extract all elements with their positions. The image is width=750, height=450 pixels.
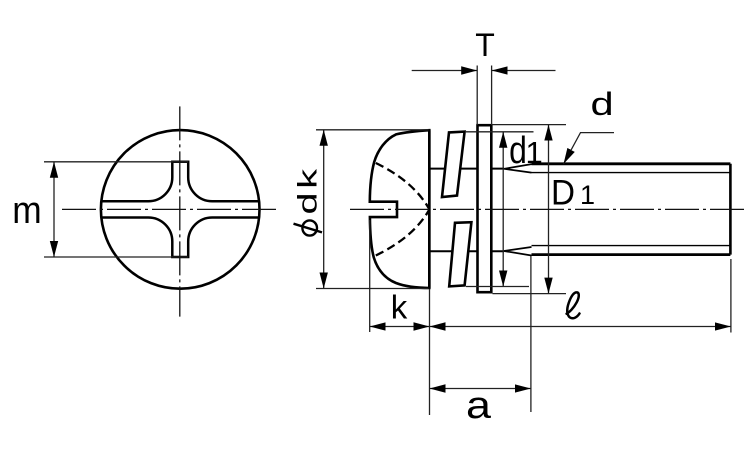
thread run-out wedge bottom: [504, 247, 532, 256]
D1 label: [551, 174, 575, 213]
svg-text:1: 1: [526, 135, 543, 170]
d1 dimension line with arrows: [502, 132, 504, 287]
a label: [466, 383, 492, 426]
svg-text:dk: dk: [293, 165, 323, 214]
main axis centerline of side view: [350, 208, 744, 210]
horizontal centerline of head circle: [62, 208, 276, 210]
svg-text:1: 1: [580, 180, 595, 210]
shank bottom edge under washers: [429, 250, 504, 252]
a right extension line: [530, 256, 532, 412]
T dimension line right part with arrow: [492, 70, 556, 72]
svg-text:k: k: [391, 289, 408, 326]
svg-text:D: D: [551, 174, 575, 213]
m top extension line: [44, 161, 188, 163]
thread root bottom line: [532, 245, 730, 247]
thread major diameter bottom line: [532, 253, 731, 256]
m label: [12, 189, 41, 231]
k/l shared extension line: [429, 289, 431, 415]
thread root top line: [532, 172, 730, 174]
thread end face: [729, 164, 732, 255]
k dimension line with arrows: [370, 326, 430, 328]
vertical centerline of head circle: [179, 106, 181, 316]
shank top edge under washers: [429, 168, 504, 170]
d1 bottom extension line: [466, 286, 529, 288]
m dimension line with arrows: [53, 162, 55, 257]
d1 top extension line: [465, 131, 534, 133]
svg-text:d: d: [590, 86, 613, 122]
l (script ell) label: [567, 292, 580, 318]
T dimension line left part with arrow: [412, 70, 478, 72]
svg-text:m: m: [12, 189, 41, 231]
phi-dk dimension line with arrows: [323, 130, 325, 289]
phi symbol of phi-dk label (drawn): [294, 220, 323, 235]
hidden recess line lower (dashed): [376, 211, 429, 256]
k left extension line: [369, 220, 371, 332]
head bearing face: [428, 130, 431, 288]
a dimension line with arrows: [430, 388, 531, 390]
spring washer lower section: [449, 222, 471, 286]
flat washer (side view): [478, 125, 492, 292]
thread major diameter top line: [532, 162, 731, 165]
d label: [590, 86, 613, 122]
svg-text:T: T: [475, 27, 495, 63]
l right extension line: [730, 259, 732, 333]
T right extension line: [491, 66, 493, 126]
spring washer upper section: [442, 132, 465, 197]
phi-dk top extension line: [316, 129, 429, 131]
d leader line with arrow: [564, 133, 615, 164]
D1 bottom extension line: [493, 293, 567, 295]
pan head outline (side view): [370, 130, 430, 288]
cross recess outline (top view): [101, 162, 260, 257]
svg-text:a: a: [466, 383, 492, 426]
hidden recess line upper (dashed): [376, 163, 429, 208]
D1 dimension line with arrows: [548, 125, 550, 294]
thread run-out wedge top: [504, 164, 532, 173]
l dimension line with arrows: [430, 326, 731, 328]
D1 top extension line: [492, 124, 566, 126]
T left extension line: [476, 66, 478, 126]
phi-dk bottom extension line: [316, 288, 429, 290]
svg-text:d: d: [509, 129, 527, 171]
d1 label: [509, 129, 527, 171]
m bottom extension line: [44, 256, 188, 258]
head circle (top view): [101, 130, 260, 289]
